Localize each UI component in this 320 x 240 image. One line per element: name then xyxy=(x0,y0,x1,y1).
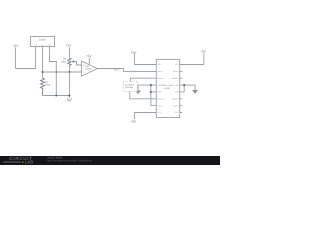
svg-text:+5V: +5V xyxy=(13,44,20,48)
ground GND1 xyxy=(67,96,72,102)
svg-text:Input 2: Input 2 xyxy=(157,104,163,107)
svg-text:10kΩ: 10kΩ xyxy=(61,60,67,63)
resistor R1 xyxy=(41,78,45,96)
svg-text:+5V: +5V xyxy=(66,44,73,48)
svg-text:+Vs: +Vs xyxy=(34,43,37,46)
pin stub right 11 xyxy=(180,98,183,100)
wire op-amp output xyxy=(97,69,156,72)
svg-text:Input 1: Input 1 xyxy=(157,70,163,73)
wire pin3 GND jog xyxy=(50,47,57,96)
wire right pin16 to +5V xyxy=(180,53,204,65)
svg-text:Input 4: Input 4 xyxy=(173,70,179,73)
wire wiper to op-amp xyxy=(74,62,82,65)
svg-text:Vs 1: Vs 1 xyxy=(175,63,179,66)
potentiometer R2 xyxy=(68,58,71,65)
svg-text:Vout: Vout xyxy=(41,43,45,46)
IC U3 L293D box xyxy=(156,59,179,117)
wire +5V left vertical xyxy=(15,47,17,68)
wire pot top from +5V xyxy=(68,47,70,58)
wire IC pin4 to ground xyxy=(138,85,156,91)
pin stub right 14 xyxy=(180,77,183,79)
wire pot bottom xyxy=(68,65,70,96)
IC pin labels right xyxy=(172,63,180,114)
pin stub right 15 xyxy=(180,70,183,72)
pin stub right 9 xyxy=(180,112,183,114)
watermark bar xyxy=(0,156,220,165)
svg-text:Output 4: Output 4 xyxy=(172,77,179,80)
svg-text:+5V: +5V xyxy=(86,54,93,58)
ground GND3 xyxy=(192,90,198,93)
wire pin5 stub xyxy=(151,91,156,93)
sensor U1 LM35 box xyxy=(31,37,55,47)
wire gnd tie vertical xyxy=(151,85,156,106)
junction dots xyxy=(41,71,185,97)
wire OUT2 to motor bottom xyxy=(130,92,157,99)
svg-text:GND: GND xyxy=(157,91,162,94)
svg-text:EN 2: EN 2 xyxy=(175,111,179,114)
wire ground run xyxy=(43,95,70,97)
svg-text:L293D: L293D xyxy=(164,87,171,90)
wire op-amp V+ pin xyxy=(88,58,90,65)
pin stub right 10 xyxy=(180,105,183,107)
svg-text:LM358: LM358 xyxy=(85,67,92,70)
svg-text:+5V: +5V xyxy=(200,49,207,53)
svg-text:GND: GND xyxy=(157,84,162,87)
wire OUT1 to motor xyxy=(131,78,157,81)
svg-text:EN 1: EN 1 xyxy=(157,63,161,66)
svg-text:LM35: LM35 xyxy=(39,38,46,41)
component labels xyxy=(34,38,174,90)
svg-text:GND: GND xyxy=(175,91,180,94)
ground GND2 xyxy=(135,91,140,94)
wire right pin13 to ground xyxy=(180,85,195,90)
svg-text:Output 3: Output 3 xyxy=(172,98,179,101)
IC pin labels left xyxy=(157,63,164,114)
svg-text:Output 1: Output 1 xyxy=(157,77,164,80)
wire pin8 to +5V below xyxy=(135,113,157,120)
svg-text:Input 3: Input 3 xyxy=(173,104,179,107)
wire pin12 tie xyxy=(180,85,185,92)
svg-text:LAB: LAB xyxy=(25,160,34,165)
svg-text:GND: GND xyxy=(175,84,180,87)
logo underline xyxy=(3,161,20,163)
svg-text:Vs 2: Vs 2 xyxy=(157,111,161,114)
svg-text:http://circuitlab.com/c/mdg72d: http://circuitlab.com/c/mdg72d2b2jt/bcp2 xyxy=(47,160,92,163)
svg-text:+5V: +5V xyxy=(131,50,138,54)
pot wiper arrow xyxy=(72,61,74,63)
svg-text:10kΩ: 10kΩ xyxy=(45,83,51,86)
svg-text:+5V: +5V xyxy=(131,120,138,124)
svg-text:Motor Driver: Motor Driver xyxy=(161,84,173,87)
wire +5V left horizontal xyxy=(16,68,36,70)
flag texts xyxy=(13,44,207,124)
wire +5V to EN1 xyxy=(135,53,157,64)
svg-text:(M-Pins): (M-Pins) xyxy=(126,86,134,89)
wire pin2 Vout down xyxy=(42,47,44,79)
svg-text:Output 2: Output 2 xyxy=(157,98,164,101)
op-amp U2 triangle xyxy=(82,61,98,76)
wire rail minus-input net xyxy=(43,71,82,73)
svg-text:R2: R2 xyxy=(63,58,67,61)
wire pin1 +Vs down xyxy=(35,47,37,69)
motor annotation dashed box xyxy=(124,82,138,92)
svg-text:Input 1: Input 1 xyxy=(114,69,121,72)
